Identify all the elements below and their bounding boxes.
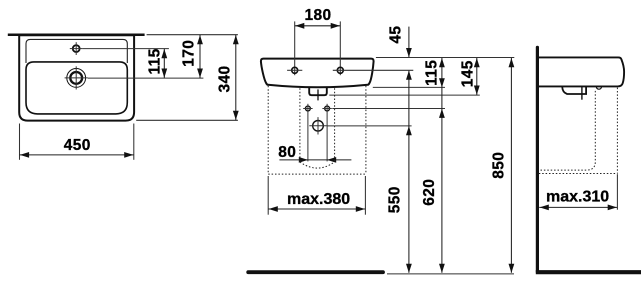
- dimension column 45 / 550: [406, 27, 412, 273]
- svg-text:145: 145: [459, 60, 476, 87]
- faucet hole centerline right: [339, 21, 341, 75]
- drain boss (side view): [562, 87, 586, 95]
- svg-text:180: 180: [304, 7, 331, 24]
- dimension max.380: [268, 176, 365, 215]
- extension line faucet: [83, 48, 169, 50]
- drain (top view): [65, 66, 88, 89]
- faucet hole centerline left: [294, 21, 296, 75]
- siphon connection: [309, 117, 326, 134]
- dimension max.310: [539, 205, 617, 211]
- dashed shroud bottom arc: [300, 162, 335, 168]
- extension basin bottom edge: [373, 86, 445, 88]
- extension siphon: [328, 125, 412, 127]
- faucet hole (top view): [70, 42, 83, 55]
- faucet hole right: [333, 67, 414, 73]
- dimension 170 (top view): [197, 35, 203, 78]
- svg-text:115: 115: [424, 60, 441, 86]
- dashed max380 box bottom: [268, 173, 366, 175]
- svg-text:340: 340: [217, 65, 234, 92]
- extension line front (max310): [616, 174, 618, 210]
- extension basin top: [376, 57, 514, 59]
- extension outlet bottom: [329, 94, 480, 96]
- fixing hole right: [322, 104, 331, 162]
- svg-text:550: 550: [387, 186, 404, 213]
- dashed max380 box right: [365, 86, 367, 174]
- dimension 80: [279, 157, 351, 163]
- svg-text:450: 450: [64, 137, 91, 154]
- wall edge line: [8, 33, 145, 36]
- extension fixing holes: [332, 108, 445, 110]
- svg-text:80: 80: [278, 144, 296, 161]
- dashed shroud left: [299, 88, 301, 162]
- basin front outline: [261, 59, 374, 88]
- dimension 850: [509, 58, 515, 273]
- wall line (side view): [536, 47, 539, 272]
- svg-text:max.310: max.310: [546, 189, 609, 206]
- dashed siphon pipe (side view): [539, 91, 596, 170]
- dashed envelope bottom (side view): [539, 173, 618, 175]
- outlet pipe stub (side view): [581, 87, 583, 100]
- svg-text:170: 170: [180, 40, 197, 67]
- extension line basin bottom: [136, 119, 238, 121]
- drain outlet box: [309, 87, 327, 95]
- floor extension line: [387, 273, 514, 275]
- floor line (side view): [536, 270, 641, 274]
- svg-text:115: 115: [147, 48, 164, 74]
- dimension column 115 / 620: [439, 58, 445, 273]
- overflow bump (side view): [596, 87, 601, 90]
- dashed shroud right: [334, 88, 336, 162]
- dimension 180: [295, 23, 341, 29]
- extension line wall level: [147, 34, 238, 36]
- dimension 115 (top view): [161, 49, 167, 79]
- outlet pipe line: [317, 89, 319, 100]
- dashed envelope front (side view): [616, 88, 618, 174]
- dimension 145: [474, 58, 480, 95]
- floor line (front view): [248, 270, 383, 274]
- basin side profile: [539, 57, 624, 86]
- svg-text:45: 45: [388, 26, 405, 44]
- extension line drain: [88, 77, 204, 79]
- dashed max380 box left: [267, 86, 269, 174]
- fixing hole left: [303, 104, 312, 162]
- dimension 340 (top view): [233, 35, 239, 121]
- faucet hole left: [287, 67, 302, 73]
- bowl outline: [26, 62, 127, 114]
- dimension 450 (top view): [20, 124, 134, 160]
- svg-text:850: 850: [491, 152, 508, 179]
- svg-text:max.380: max.380: [287, 191, 350, 208]
- inner rim line: [26, 39, 127, 63]
- svg-text:620: 620: [421, 179, 438, 206]
- basin outer rim outline: [19, 35, 134, 120]
